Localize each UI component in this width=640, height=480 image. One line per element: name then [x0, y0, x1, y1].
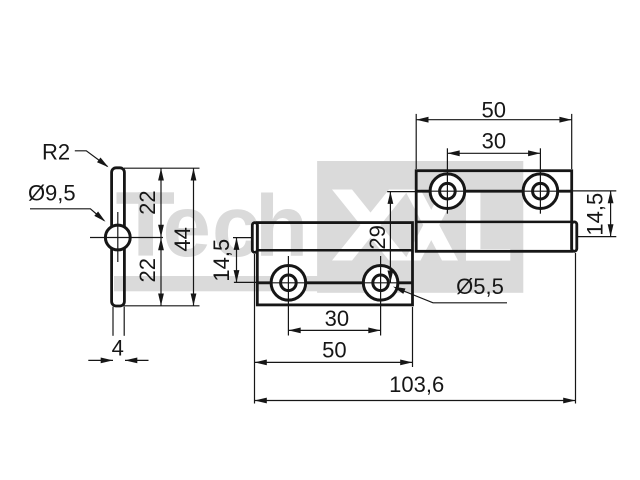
upper leaf pin barrel tab right: [572, 222, 577, 251]
lower leaf thick line through hole centers: [257, 281, 412, 284]
upper leaf hole 1 counterbore circle: [430, 174, 465, 209]
svg-text:e: e: [163, 178, 211, 275]
label O5,5: [456, 274, 504, 299]
dimension line 29: [388, 192, 394, 283]
watermark white letter L: [466, 192, 510, 261]
dimension line 50 bottom: [255, 360, 413, 366]
extension line 50/103,6 left: [254, 254, 256, 404]
watermark gray letter T of Tech: [117, 192, 175, 255]
svg-text:30: 30: [325, 306, 349, 331]
dimension line 14,5 left: [234, 238, 240, 283]
extension line barrel center left: [233, 237, 253, 239]
watermark gray letter h of Tech: [255, 178, 308, 275]
watermark gray letter c of Tech: [212, 178, 260, 275]
label 29: [365, 225, 390, 249]
svg-text:103,6: 103,6: [389, 372, 444, 397]
svg-text:14,5: 14,5: [209, 239, 234, 282]
upper leaf hole 2 bore circle: [533, 183, 549, 199]
extension lines for 4mm thickness: [113, 307, 124, 336]
R2 leader with arrow: [75, 151, 109, 168]
extension of hole centerline to left: [387, 191, 416, 193]
label 4: [112, 335, 124, 360]
svg-text:22: 22: [135, 190, 160, 214]
svg-text:R2: R2: [42, 139, 70, 164]
label 22 upper: [135, 190, 160, 214]
label 30 bottom: [325, 306, 349, 331]
dimension line 4 with outside arrows: [88, 358, 148, 364]
lower leaf knuckle boundary line: [253, 249, 412, 252]
upper leaf hole 2 counterbore circle: [523, 174, 558, 209]
lower leaf hole 2 counterbore circle: [363, 266, 398, 301]
barrel vertical centerline: [117, 212, 119, 262]
extension of hole centerline to right: [572, 190, 617, 192]
label 50 bottom: [322, 337, 346, 362]
O5,5 leader with arrow: [393, 287, 507, 303]
svg-text:Ø9,5: Ø9,5: [28, 180, 76, 205]
svg-text:14,5: 14,5: [582, 193, 607, 236]
dimension line 14,5 right: [608, 191, 614, 237]
lower leaf hole 2 bore circle: [373, 275, 389, 291]
watermark white letter X2: [405, 190, 459, 261]
dimension line 44 vertical: [191, 168, 197, 306]
upper leaf hole 1 bore circle: [440, 183, 456, 199]
O9,5 leader with arrow: [30, 209, 106, 222]
watermark gray XXL box: [317, 161, 523, 293]
lower hole 2 crosshair: [362, 256, 399, 336]
label 14,5 left: [209, 239, 234, 282]
lower hole 1 crosshair: [270, 256, 307, 336]
svg-text:44: 44: [170, 227, 195, 251]
dimension line 30 top: [447, 150, 540, 156]
svg-text:50: 50: [322, 337, 346, 362]
O9,5 label: [28, 180, 76, 205]
svg-text:29: 29: [365, 225, 390, 249]
hinge leaf side-view outline (4mm wide plate): [112, 168, 125, 306]
upper leaf knuckle boundary line: [416, 221, 572, 224]
extension line top of side view: [124, 167, 200, 169]
svg-text:30: 30: [482, 129, 506, 154]
lower leaf pin barrel tab left: [252, 223, 257, 253]
extension line 103,6 right: [575, 253, 577, 404]
svg-text:22: 22: [135, 258, 160, 282]
dimension line 30 bottom: [288, 328, 380, 334]
watermark gray letter e of Tech: [163, 178, 211, 275]
extension line barrel center right: [577, 236, 617, 238]
barrel horizontal centerline: [90, 237, 163, 239]
upper hole 1 crosshair: [429, 148, 466, 213]
label 44: [170, 227, 195, 251]
watermark gray underline band: [114, 276, 320, 291]
upper hole 2 crosshair: [522, 148, 559, 213]
label 103,6: [389, 372, 444, 397]
label 50 top: [481, 97, 505, 122]
upper leaf thick line through hole centers: [416, 190, 572, 193]
svg-text:h: h: [255, 178, 308, 275]
lower leaf outline: [257, 223, 412, 305]
lower leaf hole 1 counterbore circle: [271, 266, 306, 301]
dimension line 103,6: [255, 398, 576, 404]
dimension line 50 top: [416, 117, 572, 123]
extension of lower hole centerline to left: [234, 281, 257, 283]
extension line bottom of side view: [120, 305, 200, 307]
label 30 top: [482, 129, 506, 154]
svg-text:Ø5,5: Ø5,5: [456, 274, 504, 299]
label 22 lower: [135, 258, 160, 282]
dimension line 22/22 vertical: [158, 168, 164, 306]
extension line 50 bottom right: [412, 307, 414, 367]
extension line 50 top right: [571, 114, 573, 169]
watermark white letter X1: [332, 190, 409, 261]
R2 label: [42, 139, 70, 164]
svg-text:4: 4: [112, 335, 124, 360]
label 14,5 right: [582, 193, 607, 236]
svg-text:50: 50: [481, 97, 505, 122]
knuckle barrel circle O9,5: [105, 225, 130, 250]
extension line 50 top left: [415, 114, 417, 169]
upper leaf outline: [416, 171, 572, 252]
lower leaf hole 1 bore circle: [281, 275, 297, 291]
